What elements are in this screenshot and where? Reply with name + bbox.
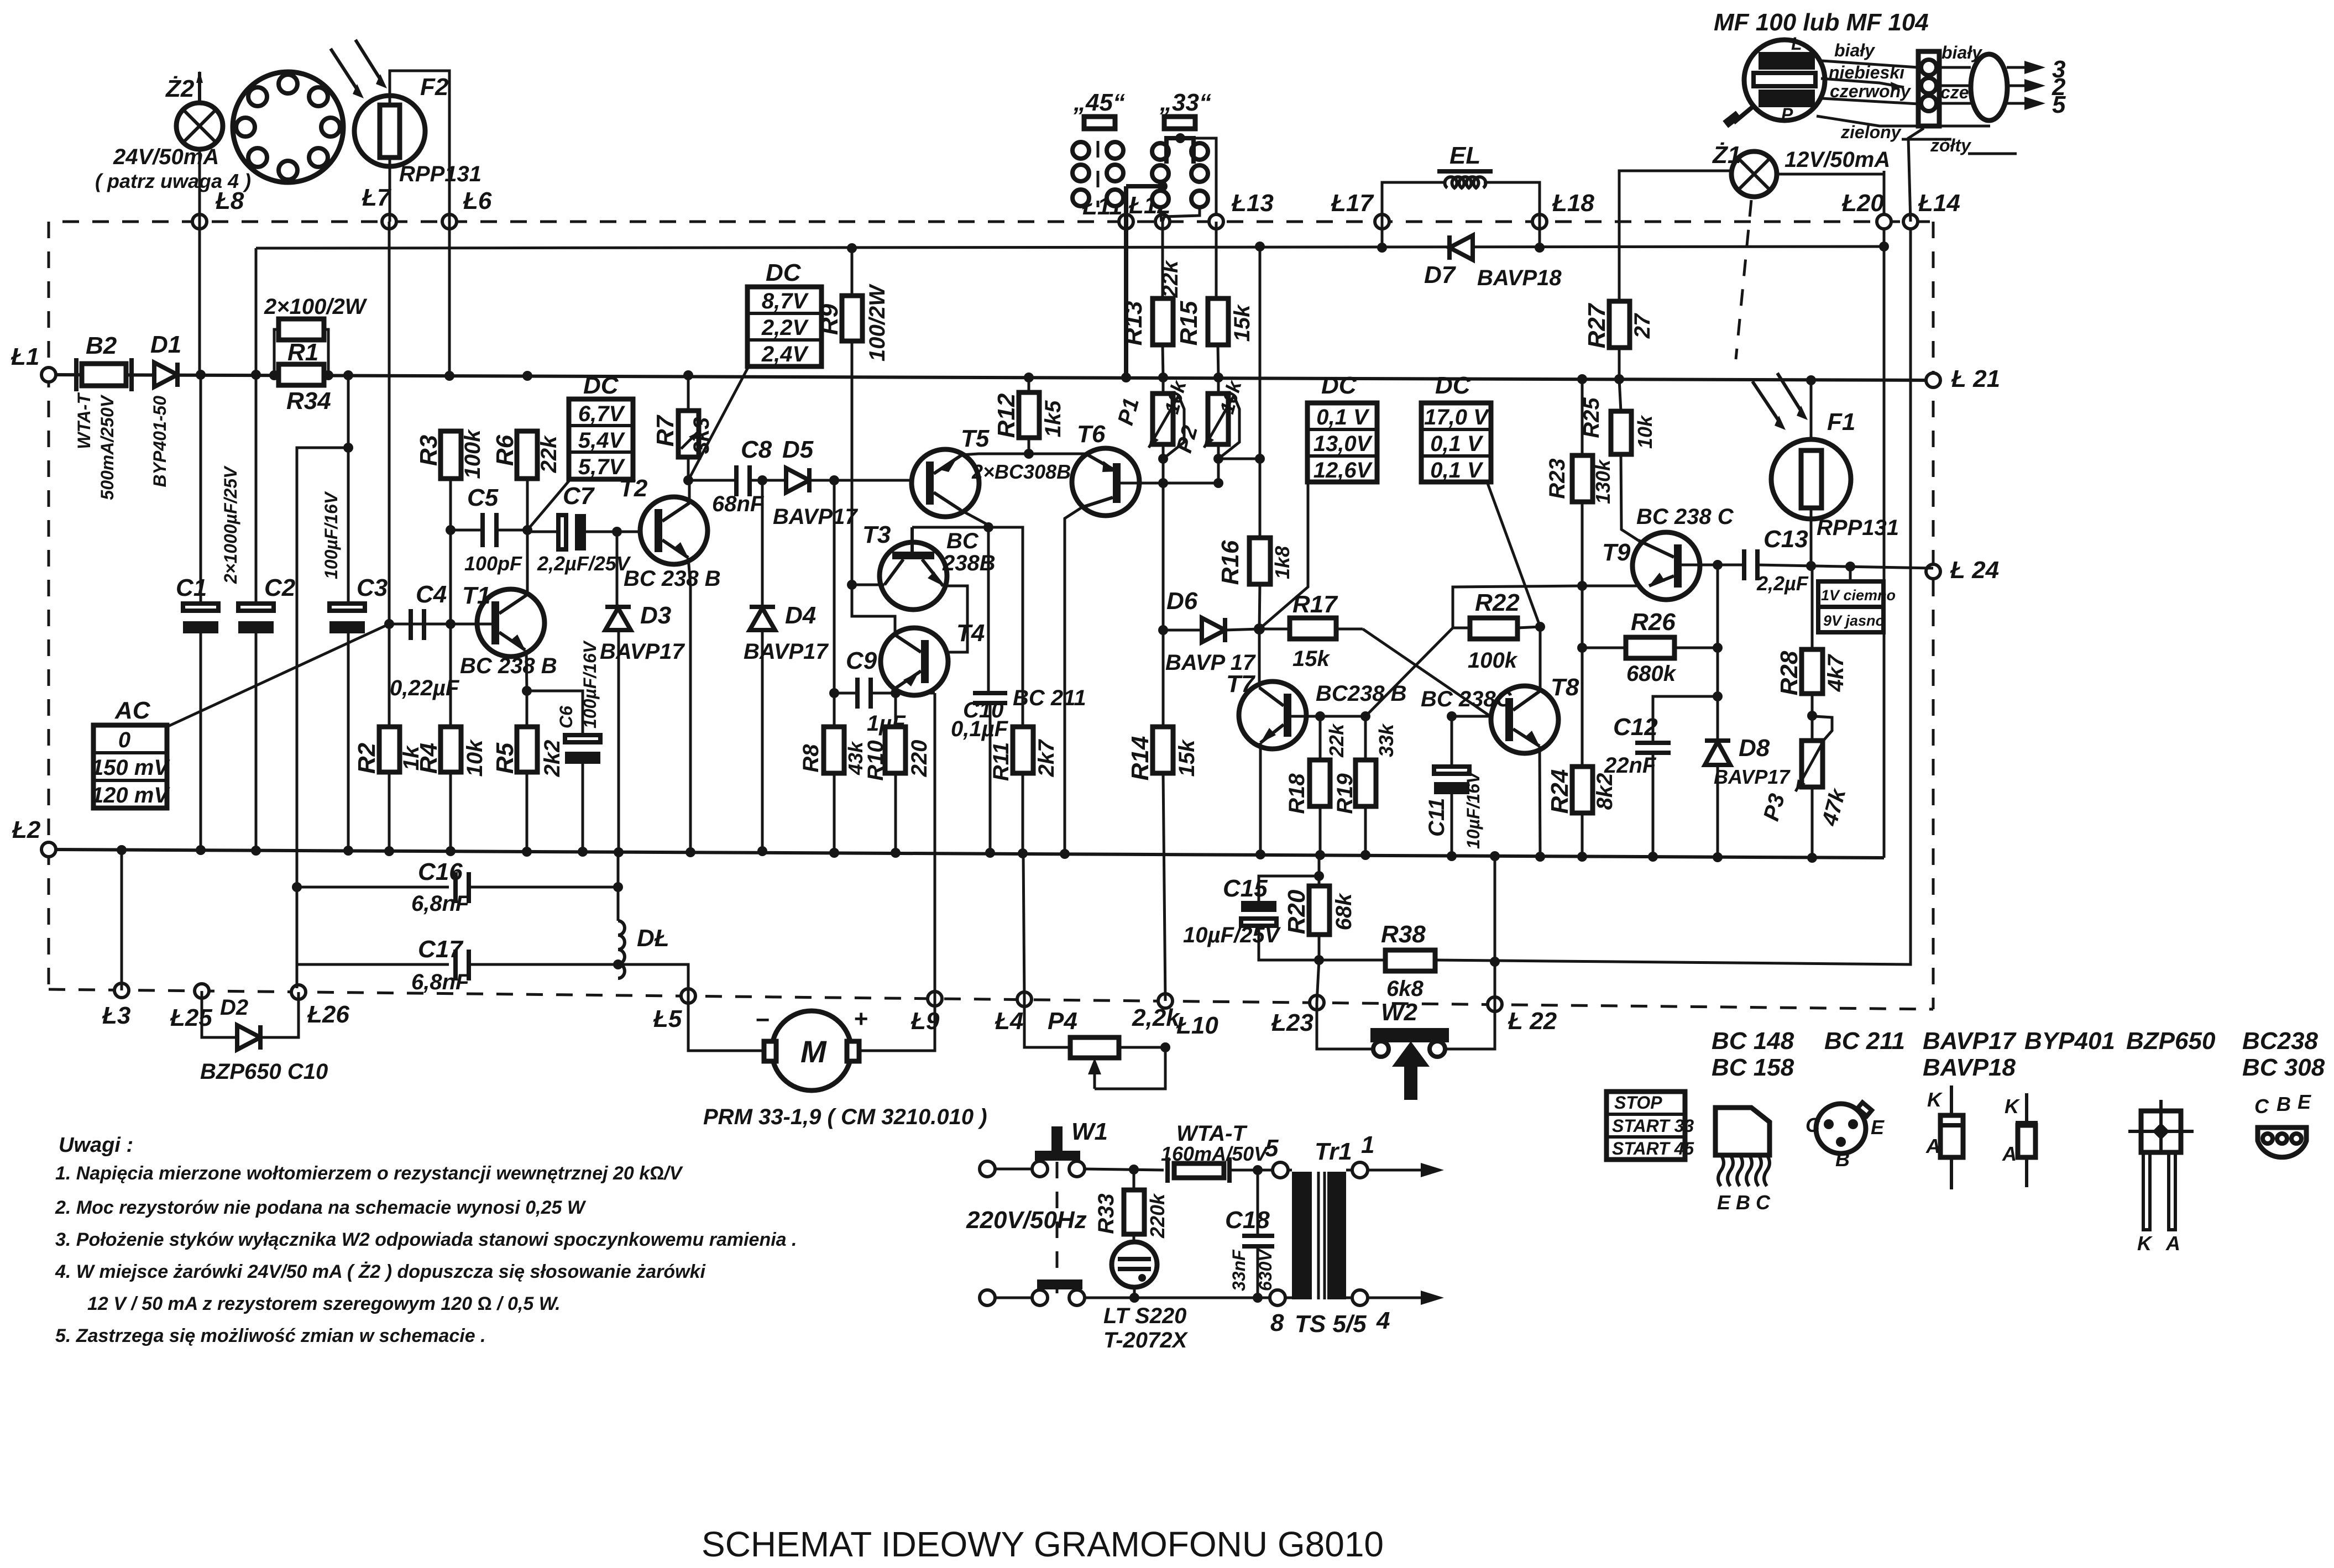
svg-text:T8: T8 [1551,674,1579,701]
svg-text:„33“: „33“ [1159,89,1211,116]
svg-text:BAVP17: BAVP17 [600,639,685,664]
wire T5 collector down to C10 [961,510,988,693]
resistor R28 [1776,568,1848,741]
wire T7 base line to R18 R19 [1291,715,1365,718]
svg-text:C: C [2254,1095,2269,1118]
svg-text:2,2µF: 2,2µF [1756,572,1809,595]
svg-text:R3: R3 [415,435,442,466]
wire bus2 left corner drop [255,248,258,375]
svg-text:D2: D2 [220,995,248,1020]
wire C2 leads [255,375,258,604]
resistor R1 (upper of pair) [264,295,368,375]
svg-text:22k: 22k [1325,723,1348,758]
capacitor C5 [451,484,527,575]
svg-text:C5: C5 [467,484,499,511]
node L2 [41,842,56,857]
svg-text:15k: 15k [1230,304,1254,342]
svg-text:R38: R38 [1381,921,1426,948]
wire C16 line [297,886,449,889]
svg-text:12V/50mA: 12V/50mA [1784,148,1890,172]
svg-text:2k2: 2k2 [540,740,564,778]
svg-text:PRM 33-1,9 ( CM 3210.010 ): PRM 33-1,9 ( CM 3210.010 ) [703,1105,987,1129]
svg-text:( patrz uwaga 4 ): ( patrz uwaga 4 ) [95,170,251,192]
svg-text:220: 220 [907,740,931,778]
wire R9 column L to T4 [852,585,921,652]
transistor T6 (mirrored, rotated) [1072,421,1139,516]
svg-text:B2: B2 [86,332,117,359]
svg-text:D7: D7 [1424,261,1457,289]
wire R25 to T9 collector [1621,454,1639,541]
resistor R26 [1577,609,1723,686]
wire L20 vertical from lamp Z1 to ground bus [1883,171,1886,858]
svg-text:zielony: zielony [1840,122,1902,142]
svg-text:DC: DC [1321,372,1357,399]
svg-text:BC 308: BC 308 [2242,1054,2325,1081]
resistor R18 [1285,716,1348,860]
resistor R8 [799,727,867,858]
wire T1 emitter [526,650,527,727]
svg-text:Uwagi :: Uwagi : [59,1134,133,1157]
wire F2 top to L6 [390,71,449,222]
svg-text:T7: T7 [1226,670,1256,698]
svg-text:BC 211: BC 211 [1824,1027,1905,1055]
wire signal line T2 collector to T5 base [688,479,736,482]
speed switch 33 [1152,89,1216,222]
svg-text:100k: 100k [1468,648,1518,673]
svg-text:C3: C3 [357,574,388,601]
wire L3 stub [121,850,123,990]
transistor T1 [460,582,557,678]
wire L22 riser [1494,856,1496,1004]
svg-text:2,2k: 2,2k [1132,1004,1181,1031]
svg-text:Ł14: Ł14 [1918,190,1960,217]
svg-text:0: 0 [118,728,130,752]
wire bus3 main line [49,375,1933,380]
node L24 [1926,564,1940,579]
svg-text:D1: D1 [150,331,181,358]
capacitor C11 [1425,716,1483,861]
svg-text:Ł17: Ł17 [1331,190,1374,217]
svg-text:3. Położenie styków wyłąc: 3. Położenie styków wyłącznika W2 odpowi… [55,1229,797,1250]
transistor T3 (rotated) [862,521,996,610]
svg-text:22k: 22k [537,435,561,473]
svg-text:C15: C15 [1223,875,1268,902]
wires through cable to pins 3 2 5 [1939,56,2066,118]
junction dots on bus3 left [196,370,206,380]
node L22 [1488,997,1502,1011]
light arrows at F2 [331,40,387,98]
svg-text:A: A [2002,1142,2017,1165]
svg-text:DC: DC [766,259,802,286]
wire niebieski [1821,78,1904,87]
svg-text:Ł6: Ł6 [463,187,492,214]
svg-text:C18: C18 [1225,1207,1270,1234]
diode D3 [600,602,685,664]
svg-text:R13: R13 [1120,301,1147,346]
svg-text:6k8: 6k8 [1386,977,1424,1001]
node L17 [1375,214,1389,229]
svg-text:100/2W: 100/2W [865,284,889,361]
resistor R5 [491,727,564,852]
diode D4 [744,480,829,856]
svg-text:630V: 630V [1255,1249,1275,1291]
node L26 [291,985,306,999]
resistor R6 [491,431,561,479]
svg-text:C11: C11 [1425,798,1449,837]
node L14 [1903,214,1918,229]
svg-text:W2: W2 [1381,999,1418,1026]
svg-text:R6: R6 [491,434,519,466]
svg-text:R22: R22 [1475,589,1520,616]
resistor R34 (on bus) [279,364,331,415]
svg-text:6,8nF: 6,8nF [411,891,470,916]
resistor R16 [1217,538,1294,585]
svg-text:Ł20: Ł20 [1841,190,1884,217]
svg-text:D8: D8 [1739,735,1770,762]
svg-text:D3: D3 [640,602,671,629]
resistor R14 [1127,727,1199,1001]
svg-text:R24: R24 [1546,769,1573,814]
capacitor C18 [1225,1170,1275,1303]
svg-text:MF 100 lub MF 104: MF 100 lub MF 104 [1714,9,1929,36]
svg-text:Ł7: Ł7 [362,184,392,211]
diode D5 [773,436,858,529]
capacitor C17 [411,936,623,994]
wire T9 base column down [1717,565,1719,696]
svg-text:8,7V: 8,7V [762,289,809,313]
node L7 [382,214,396,229]
svg-text:R10: R10 [864,740,888,780]
svg-text:C16: C16 [418,858,463,885]
svg-text:D4: D4 [785,602,816,629]
capacitor C8 [712,436,772,516]
wire T2 base down through D3 to L2 [616,532,619,607]
svg-text:Ż2: Ż2 [165,75,195,102]
svg-text:2. Moc rezystorów nie p: 2. Moc rezystorów nie podana na schemaci… [55,1197,587,1218]
wire left dashed border [48,222,50,989]
svg-text:2×100/2W: 2×100/2W [264,295,368,319]
svg-text:100pF: 100pF [464,552,522,575]
capacitor C15 [1183,868,1319,960]
svg-text:BYP401-50: BYP401-50 [150,396,170,487]
legend BAVP17/BAVP18 package [1923,1027,2017,1189]
svg-text:żółty: żółty [1930,135,1972,155]
svg-text:R18: R18 [1285,773,1309,814]
note box 1V ciemno / 9V jasno [1818,567,1896,632]
svg-text:2k7: 2k7 [1034,739,1059,777]
svg-text:680k: 680k [1626,662,1677,686]
legend STOP/START table [1606,1092,1694,1160]
svg-text:B: B [1736,1191,1750,1214]
wire bialy to connector [1822,61,1918,67]
light arrows at F1 [1752,373,1808,430]
svg-text:220V/50Hz: 220V/50Hz [966,1207,1087,1234]
svg-text:„45“: „45“ [1073,89,1125,116]
svg-text:R9: R9 [816,303,843,335]
node L20 [1877,214,1891,229]
wire R20 bottom to L23 [1317,960,1319,1003]
wire czerwony [1822,98,1918,104]
svg-text:150 mV: 150 mV [91,756,170,780]
svg-text:4k7: 4k7 [1824,654,1848,692]
svg-text:1: 1 [1361,1131,1374,1158]
fuse / photoresistor F2 [354,74,449,166]
capacitor C16 [411,858,623,916]
svg-text:15k: 15k [1292,647,1330,671]
wire P1 wiper column down to D6 junction and R14 [1162,483,1165,727]
svg-text:C2: C2 [264,574,296,601]
svg-text:BAVP18: BAVP18 [1477,266,1562,290]
svg-text:DC: DC [583,372,619,399]
potentiometer P4 [1024,999,1181,1089]
svg-text:C1: C1 [176,574,207,601]
svg-text:5,7V: 5,7V [578,455,626,479]
connector socket (8-pin) [233,72,343,182]
svg-text:R2: R2 [353,742,380,774]
speed switch 45 [1072,89,1125,207]
wire T1 base line [389,623,491,626]
diode D1 [150,331,181,487]
node L3 [114,983,129,998]
svg-text:K: K [1927,1088,1943,1111]
legend BC148 BC158 package [1712,1027,1794,1214]
svg-text:100k: 100k [460,429,485,479]
svg-text:Ł5: Ł5 [653,1005,682,1032]
wire C17 line [297,963,449,966]
svg-text:R17: R17 [1292,591,1338,618]
wire C1 leads [200,375,202,604]
wire C9 node vertical (from signal junction down to R8) [833,480,836,727]
svg-text:BC 238C: BC 238C [1421,687,1513,711]
lamp Z1 [1712,141,1890,197]
wire T2 emitter to L2 [688,558,690,852]
svg-text:BZP650 C10: BZP650 C10 [200,1060,328,1084]
wire right dashed border [1932,222,1935,1009]
svg-text:100µF/16V: 100µF/16V [321,491,341,579]
lamp Z2 [95,71,251,192]
svg-text:T3: T3 [862,521,891,548]
wire Z1 right to L20 [1777,173,1884,176]
cartridge MF100 [1714,9,1929,128]
wire T7 collector [1258,629,1261,688]
connector strip [1918,51,1939,126]
svg-text:R14: R14 [1127,736,1154,781]
mains switch W1 [966,1118,1108,1305]
svg-text:niebieski: niebieski [1829,62,1905,82]
wire T8 base segment and C11 tap [1452,715,1490,718]
svg-text:F2: F2 [420,74,449,101]
svg-text:22k: 22k [1158,260,1182,298]
diode D7 [1377,222,1562,290]
wire R2 top to C4 node [388,624,391,727]
wire T3 left lead to R9 column [852,584,885,586]
svg-text:220k: 220k [1146,1193,1169,1239]
resistor R25 [1579,379,1656,454]
node L4 [1017,992,1032,1006]
wire T2 collector to R7 node [688,480,691,503]
svg-text:1. Napięcia mierzone wołt: 1. Napięcia mierzone wołtomierzem o rezy… [55,1163,684,1184]
svg-text:1k5: 1k5 [1041,400,1065,437]
wire F1 leads [1810,380,1813,439]
wire W1 top to fuse [1085,1169,1164,1170]
svg-text:10k: 10k [463,739,487,777]
wire P2 node to R16 column [1218,458,1260,460]
svg-text:BC 158: BC 158 [1712,1054,1794,1081]
svg-text:5: 5 [2052,91,2066,118]
svg-text:BC 148: BC 148 [1712,1027,1794,1055]
svg-text:T9: T9 [1602,539,1631,566]
resistor R11 [989,727,1059,858]
transistor T7 (mirrored) [1226,670,1407,749]
svg-text:SCHEMAT IDEOWY GRAMOFONU G: SCHEMAT IDEOWY GRAMOFONU G8010 [702,1524,1384,1564]
wire R9 top to bus2, bottom down to T3 [851,248,854,296]
resistor R38 [1319,921,1435,1001]
wire callout DC table2 to C8 node [688,360,752,480]
capacitor C7 [527,483,631,575]
svg-text:C6: C6 [556,706,576,728]
svg-text:4. W miejsce żarówki 24V/: 4. W miejsce żarówki 24V/50 mA ( Ż2 ) do… [55,1261,706,1282]
svg-text:C7: C7 [563,483,595,510]
wire cross coupling R17 to T8 base [1363,629,1490,716]
wire R3 to C5 node to T1 base [449,479,452,727]
wire F2 bottom through L7 down to C4 node [389,158,391,222]
resistor R19 [1333,716,1398,860]
svg-text:AC: AC [114,697,151,724]
svg-text:R7: R7 [652,414,679,447]
photoresistor F1 [1771,408,1899,540]
svg-text:DŁ: DŁ [637,925,669,952]
wire callout C5 node to DC table1 [527,480,570,530]
svg-text:Ł26: Ł26 [307,1001,349,1028]
wire T5 emitter rail to T6 [962,454,1087,455]
resistor R13 [1120,260,1182,382]
resistor R24 [1546,648,1617,862]
svg-text:LT S220: LT S220 [1103,1304,1186,1328]
DC table2 8,7/2,2/2,4 [747,259,821,366]
node L18 [1532,214,1547,229]
svg-text:E: E [1871,1116,1885,1139]
svg-text:C4: C4 [416,581,447,608]
wire R16 feed from bus2 [1259,247,1262,538]
resistor R17 [1290,591,1338,671]
svg-text:BC 238 B: BC 238 B [624,567,721,591]
svg-text:C17: C17 [418,936,464,963]
optical dashed line Z1 to F1 [1736,200,1751,359]
wire L6 down through bus2 to bus3 [448,222,451,376]
node L12 [1155,214,1170,229]
resistor R20 [1283,858,1356,965]
svg-text:BC 238 C: BC 238 C [1636,505,1734,529]
wire C3 leads and corner to C16 line [347,375,350,604]
node L13 [1209,214,1223,229]
node L9 [928,992,942,1006]
svg-text:RPP131: RPP131 [399,162,482,186]
wire T2 base line [617,531,657,533]
svg-text:R8: R8 [799,744,823,773]
legend BZP650 package [2126,1027,2216,1255]
svg-text:Ł4: Ł4 [995,1008,1023,1035]
node L21 [1926,373,1940,387]
svg-text:5. Zastrzega się możliwoś: 5. Zastrzega się możliwość zmian w schem… [55,1325,486,1346]
wire cross coupling R22-left to T7 base [1365,628,1453,716]
svg-text:BAVP17: BAVP17 [773,505,858,529]
svg-text:5: 5 [1265,1135,1279,1162]
capacitor C13 [1718,526,1933,595]
svg-text:BYP401: BYP401 [2024,1027,2115,1055]
svg-text:10µF/16V: 10µF/16V [1463,770,1483,849]
svg-text:czerwony: czerwony [1830,81,1912,101]
wire callout DC table4 to R22 right node [1487,482,1540,627]
node L23 [1310,995,1324,1010]
svg-text:BAVP17: BAVP17 [744,639,829,664]
svg-text:Tr1: Tr1 [1315,1138,1352,1165]
relay EL [1382,142,1540,222]
capacitor C9 [834,647,935,736]
svg-text:2×1000µF/25V: 2×1000µF/25V [221,465,240,584]
svg-text:T-2072X: T-2072X [1103,1328,1189,1352]
node L11 [1119,214,1133,229]
svg-text:1k8: 1k8 [1271,546,1294,579]
svg-text:Ł 21: Ł 21 [1951,365,2000,392]
svg-text:0,1µF: 0,1µF [951,717,1009,741]
svg-text:4: 4 [1376,1307,1390,1334]
svg-text:Ż1: Ż1 [1712,141,1741,169]
svg-text:BAVP17: BAVP17 [1714,765,1791,788]
svg-text:24V/50mA: 24V/50mA [113,145,219,169]
svg-text:9V jasno: 9V jasno [1823,612,1885,629]
resistor R10 [864,727,931,858]
svg-text:T5: T5 [961,425,990,452]
transistor T8 [1421,674,1579,753]
wire oscillator output riser to L9 [934,693,936,999]
svg-text:C12: C12 [1613,714,1658,741]
capacitor C10 [951,693,1009,858]
svg-text:0,22µF: 0,22µF [390,676,460,700]
wire T4 emitter to C9 line [894,688,897,693]
svg-text:12 V / 50 mA z rezystorem: 12 V / 50 mA z rezystorem szeregowym 120… [87,1293,561,1314]
svg-text:T1: T1 [462,582,490,609]
fuse WTA-T 160mA [1161,1121,1273,1183]
wire AC table callout to C4 node [167,624,389,727]
svg-text:B: B [1835,1148,1850,1171]
svg-text:START 33: START 33 [1612,1116,1694,1136]
svg-text:0,1 V: 0,1 V [1316,405,1370,429]
svg-text:A: A [1925,1135,1940,1157]
svg-text:K: K [2137,1232,2153,1255]
wire Z2 to L8 to bus3 [198,149,201,375]
AC measurement table [91,697,170,808]
svg-text:M: M [800,1034,827,1069]
svg-text:R33: R33 [1094,1193,1118,1234]
DC table3 0,1/13,0/12,6 [1307,372,1377,483]
node L5 [681,989,695,1003]
svg-text:500mA/250V: 500mA/250V [97,394,117,500]
svg-text:Ł13: Ł13 [1231,190,1274,217]
svg-text:BZP650: BZP650 [2126,1027,2216,1055]
svg-text:130k: 130k [1592,459,1614,504]
svg-text:C: C [1806,1114,1820,1136]
svg-text:L: L [1791,34,1802,54]
svg-text:R34: R34 [286,387,331,415]
svg-text:K: K [2005,1095,2021,1118]
resistor R15 [1175,222,1254,382]
svg-text:Ł25: Ł25 [170,1004,212,1031]
wire R16 bottom to T7 collector junction [1259,584,1260,629]
svg-text:R15: R15 [1175,301,1202,345]
junction dots on L2 bus left [117,845,127,855]
svg-text:Ł18: Ł18 [1552,190,1594,217]
resistor R27 [1583,301,1655,384]
